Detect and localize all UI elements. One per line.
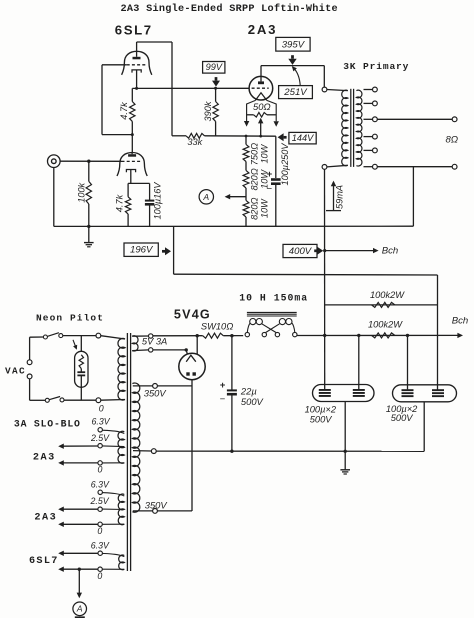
- svg-text:3A SLO-BLO: 3A SLO-BLO: [14, 418, 81, 429]
- svg-text:144V: 144V: [292, 133, 314, 143]
- svg-text:0: 0: [99, 403, 104, 413]
- svg-text:3K Primary: 3K Primary: [343, 61, 409, 72]
- svg-text:350V: 350V: [145, 499, 168, 510]
- svg-text:−: −: [220, 394, 226, 405]
- svg-text:4.7k: 4.7k: [114, 194, 124, 212]
- svg-text:8Ω: 8Ω: [445, 134, 458, 145]
- svg-text:100k2W: 100k2W: [370, 290, 405, 300]
- svg-text:0: 0: [97, 526, 102, 536]
- svg-text:100µ×2: 100µ×2: [305, 404, 337, 414]
- svg-text:196V: 196V: [130, 245, 154, 256]
- svg-text:500V: 500V: [241, 396, 264, 407]
- svg-text:2A3: 2A3: [248, 22, 278, 37]
- svg-text:2A3: 2A3: [34, 512, 57, 523]
- svg-text:33k: 33k: [187, 137, 202, 147]
- svg-text:+: +: [267, 169, 273, 180]
- svg-text:6.3V: 6.3V: [91, 480, 110, 490]
- svg-text:5V 3A: 5V 3A: [142, 336, 167, 346]
- svg-text:400V: 400V: [289, 246, 313, 257]
- svg-text:6.3V: 6.3V: [91, 541, 110, 551]
- svg-text:Bch: Bch: [452, 315, 469, 326]
- svg-text:820Ω: 820Ω: [250, 168, 260, 190]
- svg-text:350V: 350V: [144, 387, 167, 398]
- svg-text:99V: 99V: [206, 62, 223, 72]
- svg-text:395V: 395V: [282, 39, 306, 50]
- svg-text:SW10Ω: SW10Ω: [201, 321, 233, 331]
- svg-text:390k: 390k: [203, 101, 213, 121]
- svg-text:Bch: Bch: [382, 245, 399, 256]
- svg-text:A: A: [202, 192, 209, 202]
- svg-text:6SL7: 6SL7: [29, 556, 59, 567]
- svg-text:100k2W: 100k2W: [368, 319, 403, 329]
- svg-text:A: A: [76, 604, 83, 614]
- svg-text:2A3 Single-Ended SRPP Loftin-W: 2A3 Single-Ended SRPP Loftin-White: [121, 3, 338, 15]
- svg-text:10 H 150ma: 10 H 150ma: [239, 292, 308, 303]
- svg-text:100k: 100k: [77, 182, 87, 202]
- svg-text:VAC: VAC: [5, 365, 26, 376]
- svg-text:4.7k: 4.7k: [119, 102, 129, 120]
- svg-text:100µ250V: 100µ250V: [280, 143, 290, 186]
- svg-text:820Ω: 820Ω: [250, 198, 260, 220]
- svg-text:0: 0: [97, 571, 102, 581]
- svg-text:10W: 10W: [259, 198, 269, 218]
- svg-text:0: 0: [98, 465, 103, 475]
- svg-text:6.3V: 6.3V: [92, 417, 111, 427]
- svg-text:2.5V: 2.5V: [90, 496, 110, 506]
- svg-text:−: −: [267, 184, 273, 195]
- svg-text:2.5V: 2.5V: [90, 433, 110, 443]
- svg-text:500V: 500V: [310, 414, 333, 424]
- svg-text:22µ: 22µ: [240, 385, 257, 396]
- svg-text:2A3: 2A3: [33, 452, 56, 463]
- svg-text:5V4G: 5V4G: [174, 308, 211, 322]
- svg-text:50Ω: 50Ω: [253, 101, 271, 112]
- svg-text:6SL7: 6SL7: [115, 23, 153, 38]
- svg-text:500V: 500V: [391, 413, 414, 423]
- svg-text:750Ω: 750Ω: [250, 143, 260, 165]
- svg-text:+: +: [220, 380, 226, 391]
- svg-text:10W: 10W: [259, 143, 269, 163]
- svg-text:251V: 251V: [283, 87, 308, 98]
- svg-text:Neon Pilot: Neon Pilot: [36, 313, 104, 324]
- svg-text:59mA: 59mA: [334, 185, 344, 209]
- svg-text:100µ16V: 100µ16V: [153, 182, 163, 220]
